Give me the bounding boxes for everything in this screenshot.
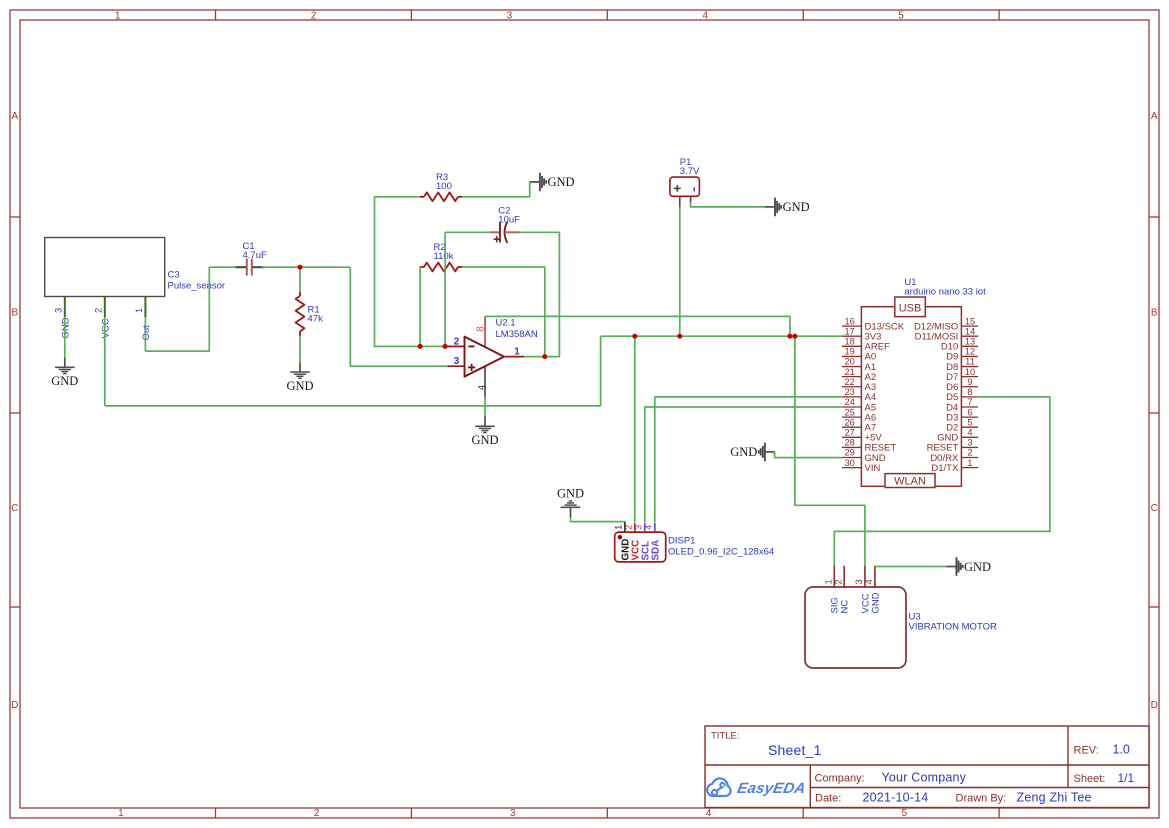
svg-text:3: 3 xyxy=(510,808,516,819)
svg-text:1: 1 xyxy=(967,458,972,468)
svg-text:1.0: 1.0 xyxy=(1113,743,1130,757)
vibration motor U3 body xyxy=(805,587,906,668)
svg-text:2: 2 xyxy=(311,10,317,21)
U1 right pin 2 D0/RX xyxy=(961,457,978,459)
svg-text:GND: GND xyxy=(548,175,575,189)
U1 right pin 5 D2 xyxy=(961,426,978,428)
svg-text:4: 4 xyxy=(476,385,486,390)
svg-text:3: 3 xyxy=(454,356,460,367)
wire VCC bus up to 3V3 net xyxy=(600,336,602,406)
wire D5 to motor SIG xyxy=(834,397,1050,566)
ground for U1 GND pin29 xyxy=(765,451,775,453)
U1 left pin 19 A0 xyxy=(842,355,862,357)
svg-text:2: 2 xyxy=(834,579,844,584)
svg-text:arduino nano 33 iot: arduino nano 33 iot xyxy=(904,287,986,298)
svg-text:Out: Out xyxy=(141,325,152,341)
wire OLED GND xyxy=(571,517,625,522)
wire node to op-amp + xyxy=(350,267,447,366)
op-amp plus mark xyxy=(468,366,475,368)
svg-text:18: 18 xyxy=(845,337,855,347)
svg-text:2: 2 xyxy=(454,336,460,347)
svg-text:3: 3 xyxy=(54,308,64,313)
svg-text:GND: GND xyxy=(783,200,810,214)
svg-text:11: 11 xyxy=(965,357,975,367)
svg-text:8: 8 xyxy=(967,387,972,397)
svg-text:U2.1: U2.1 xyxy=(496,317,516,328)
resistor R1 47k xyxy=(299,292,301,296)
U1 right pin 11 D8 xyxy=(961,366,978,368)
svg-text:A: A xyxy=(1151,111,1158,122)
wire A4 to OLED SDA xyxy=(655,397,842,523)
resistor R2 110k xyxy=(420,266,424,268)
svg-text:B: B xyxy=(1151,308,1158,319)
svg-text:1: 1 xyxy=(118,808,124,819)
svg-text:24: 24 xyxy=(845,397,855,407)
U1 right pin 6 D3 xyxy=(961,416,978,418)
OLED DISP1 body xyxy=(615,532,666,562)
wire battery plus to 3V3 net xyxy=(679,207,681,336)
wire R1 to ground xyxy=(299,336,301,363)
svg-text:7: 7 xyxy=(967,397,972,407)
op-amp U2.1 triangle xyxy=(465,337,505,377)
svg-text:1: 1 xyxy=(614,525,624,530)
svg-text:B: B xyxy=(11,308,18,319)
wire battery minus to ground xyxy=(691,203,765,207)
U1 left pin 25 A6 xyxy=(842,416,862,418)
U1 right pin 10 D7 xyxy=(961,376,978,378)
svg-text:REV:: REV: xyxy=(1074,745,1099,757)
U1 left pin 28 RESET xyxy=(842,446,862,448)
battery minus mark xyxy=(693,187,695,191)
wire 3V3 bus xyxy=(601,335,842,337)
svg-text:4: 4 xyxy=(703,10,709,21)
wire R3 left down to inverting input xyxy=(375,197,448,347)
svg-text:GND: GND xyxy=(471,433,498,447)
svg-text:GND: GND xyxy=(286,379,313,393)
svg-text:Sheet:: Sheet: xyxy=(1074,773,1106,785)
svg-text:OLED_0.96_I2C_128x64: OLED_0.96_I2C_128x64 xyxy=(668,547,774,558)
U1 left pin 21 A2 xyxy=(842,376,862,378)
svg-text:C3: C3 xyxy=(168,270,180,281)
wire C3 Out down xyxy=(144,317,146,351)
op-amp pin 3 stub xyxy=(447,365,464,367)
ground for op-amp pin4 xyxy=(484,417,486,427)
wire R3 right to ground xyxy=(462,182,530,197)
svg-text:A: A xyxy=(11,111,18,122)
wire C1 to node xyxy=(262,266,351,268)
op-amp pin 2 stub xyxy=(447,345,464,347)
svg-text:C: C xyxy=(1151,503,1158,514)
U1 right pin 1 D1/TX xyxy=(961,467,978,469)
svg-text:25: 25 xyxy=(845,407,855,417)
op-amp U2.1 pin 8 supply line xyxy=(484,316,486,350)
svg-text:6: 6 xyxy=(967,407,972,417)
EasyEDA logo xyxy=(707,778,730,796)
svg-text:17: 17 xyxy=(845,326,855,336)
svg-text:Your Company: Your Company xyxy=(882,771,967,785)
U1 left pin 16 D13/SCK xyxy=(842,325,862,327)
wire VCC bus horizontal xyxy=(105,405,601,407)
svg-text:TITLE:: TITLE: xyxy=(711,731,740,742)
svg-text:USB: USB xyxy=(899,302,922,314)
svg-text:2: 2 xyxy=(314,808,320,819)
svg-text:GND: GND xyxy=(557,487,584,501)
U1 left pin 29 GND xyxy=(842,457,862,459)
svg-text:20: 20 xyxy=(845,357,855,367)
U3 pin 2 NC xyxy=(843,566,845,587)
svg-text:3: 3 xyxy=(507,10,513,21)
svg-text:2: 2 xyxy=(967,448,972,458)
C3 pin 2 VCC stub xyxy=(104,297,106,318)
svg-text:4: 4 xyxy=(864,579,874,584)
svg-text:3: 3 xyxy=(633,525,643,530)
svg-text:Company:: Company: xyxy=(815,773,865,785)
svg-text:1: 1 xyxy=(824,579,834,584)
svg-text:5: 5 xyxy=(898,10,904,21)
U1 left pin 17 3V3 xyxy=(842,335,862,337)
svg-text:EasyEDA: EasyEDA xyxy=(736,780,808,797)
title block frame xyxy=(705,726,1149,808)
U1 left pin 27 +5V xyxy=(842,436,862,438)
svg-text:VIBRATION MOTOR: VIBRATION MOTOR xyxy=(909,622,997,633)
svg-text:4: 4 xyxy=(643,525,653,530)
U1 left pin 30 VIN xyxy=(842,467,862,469)
ground for OLED xyxy=(570,507,572,517)
svg-text:LM358AN: LM358AN xyxy=(496,329,538,340)
wire Out to C1 xyxy=(145,267,246,351)
wire R2 right to output node xyxy=(462,267,545,357)
U1 right pin 14 D11/MOSI xyxy=(961,335,978,337)
svg-text:DISP1: DISP1 xyxy=(668,536,695,547)
wire motor GND to ground xyxy=(875,566,946,568)
wire A5 to OLED SCL xyxy=(645,407,842,523)
svg-text:1: 1 xyxy=(115,10,121,21)
battery plus mark xyxy=(674,187,681,189)
op-amp minus mark xyxy=(468,345,474,347)
U3 pin 4 GND xyxy=(874,566,876,587)
wire C3 VCC down xyxy=(104,317,106,406)
svg-text:D1/TX: D1/TX xyxy=(931,463,959,474)
U1 right pin 4 GND xyxy=(961,436,978,438)
U1 left pin 22 A3 xyxy=(842,386,862,388)
svg-text:30: 30 xyxy=(845,458,855,468)
svg-text:27: 27 xyxy=(845,428,855,438)
wire node to R1 xyxy=(299,267,301,292)
wire C3 pin3 to ground xyxy=(64,317,66,358)
svg-text:NC: NC xyxy=(840,600,851,614)
svg-text:C: C xyxy=(11,503,18,514)
svg-text:D: D xyxy=(1151,700,1158,711)
wire 3V3 to motor VCC xyxy=(795,336,865,566)
svg-text:26: 26 xyxy=(845,417,855,427)
svg-text:15: 15 xyxy=(965,316,975,326)
C3 pin 1 Out stub xyxy=(144,297,146,318)
U1 right pin 9 D6 xyxy=(961,386,978,388)
svg-text:100: 100 xyxy=(436,181,452,192)
ground for R3 xyxy=(530,181,540,183)
svg-text:Zeng Zhi Tee: Zeng Zhi Tee xyxy=(1017,791,1092,805)
U1 left pin 20 A1 xyxy=(842,366,862,368)
battery pin 2 stub xyxy=(690,196,692,202)
svg-text:D: D xyxy=(11,700,18,711)
wire C2 right down to output node xyxy=(519,232,559,356)
op-amp pin 1 output stub xyxy=(504,356,524,358)
svg-text:28: 28 xyxy=(845,438,855,448)
OLED pin 1 GND stub xyxy=(624,522,626,533)
svg-text:Drawn By:: Drawn By: xyxy=(956,793,1007,805)
svg-text:Pulse_sensor: Pulse_sensor xyxy=(168,281,226,292)
wire pin29 GND xyxy=(775,452,842,458)
U1 left pin 26 A7 xyxy=(842,426,862,428)
svg-text:VCC: VCC xyxy=(100,318,111,338)
resistor R3 100 feedback xyxy=(420,196,424,198)
svg-text:29: 29 xyxy=(845,448,855,458)
svg-text:1: 1 xyxy=(514,347,520,358)
battery pin 1 stub xyxy=(679,196,681,207)
U1 right pin 7 D4 xyxy=(961,406,978,408)
U1 right pin 12 D9 xyxy=(961,355,978,357)
svg-text:SDA: SDA xyxy=(651,540,662,561)
svg-text:14: 14 xyxy=(965,326,975,336)
U1 right pin 8 D5 xyxy=(961,396,978,398)
U1 right pin 15 D12/MISO xyxy=(961,325,978,327)
ground for motor xyxy=(946,566,956,568)
svg-text:8: 8 xyxy=(475,326,486,332)
svg-text:3: 3 xyxy=(967,438,972,448)
svg-text:5: 5 xyxy=(967,417,972,427)
U1 left pin 24 A5 xyxy=(842,406,862,408)
C3 pin 3 GND stub xyxy=(64,297,66,318)
wire pin4 to ground xyxy=(484,397,486,417)
svg-text:4: 4 xyxy=(706,808,712,819)
pulse sensor module C3 body xyxy=(45,238,165,297)
svg-text:10: 10 xyxy=(965,367,975,377)
svg-text:10uF: 10uF xyxy=(498,214,520,225)
op-amp U2.1 pin 4 line xyxy=(484,363,486,397)
svg-text:16: 16 xyxy=(845,316,855,326)
U1 right pin 3 RESET xyxy=(961,446,978,448)
svg-text:GND: GND xyxy=(51,374,78,388)
U3 pin 1 SIG xyxy=(833,566,835,587)
svg-text:22: 22 xyxy=(845,377,855,387)
ground for battery xyxy=(765,206,775,208)
OLED pin 2 VCC stub xyxy=(634,523,636,532)
svg-text:3.7V: 3.7V xyxy=(680,166,700,177)
svg-text:4.7uF: 4.7uF xyxy=(243,250,267,261)
junction dots layer xyxy=(298,265,303,270)
ground for C3 pin3 xyxy=(64,358,66,368)
svg-text:19: 19 xyxy=(845,347,855,357)
svg-text:2: 2 xyxy=(623,525,633,530)
svg-text:VIN: VIN xyxy=(865,463,881,474)
OLED pin 4 SDA stub xyxy=(654,523,656,532)
svg-text:4: 4 xyxy=(967,428,972,438)
U3 pin 3 VCC xyxy=(864,566,866,587)
svg-text:110k: 110k xyxy=(434,251,454,262)
svg-text:2: 2 xyxy=(94,308,104,313)
svg-text:12: 12 xyxy=(965,347,975,357)
svg-text:GND: GND xyxy=(60,317,71,338)
svg-text:21: 21 xyxy=(845,367,855,377)
svg-text:9: 9 xyxy=(967,377,972,387)
svg-text:1/1: 1/1 xyxy=(1118,771,1135,785)
svg-text:13: 13 xyxy=(965,337,975,347)
svg-text:GND: GND xyxy=(964,560,991,574)
capacitor C1 4.7uF xyxy=(236,266,247,268)
wire 3V3 to OLED VCC xyxy=(634,336,636,522)
wire R2 left down to inverting node xyxy=(419,267,421,346)
ground for R1 xyxy=(299,362,301,372)
svg-text:GND: GND xyxy=(870,592,881,613)
wire C2 left down to inverting node xyxy=(445,231,490,233)
U1 left pin 23 A4 xyxy=(842,396,862,398)
arduino nano U1 body xyxy=(861,307,961,487)
arduino WLAN box xyxy=(885,474,935,488)
svg-text:47k: 47k xyxy=(308,314,324,325)
svg-text:2021-10-14: 2021-10-14 xyxy=(863,791,929,805)
wire output to junction xyxy=(524,356,545,358)
svg-text:5: 5 xyxy=(902,808,908,819)
svg-text:1: 1 xyxy=(134,308,144,313)
svg-text:Sheet_1: Sheet_1 xyxy=(768,742,822,758)
U1 left pin 18 AREF xyxy=(842,345,862,347)
svg-text:23: 23 xyxy=(845,387,855,397)
svg-text:3: 3 xyxy=(854,579,864,584)
svg-text:GND: GND xyxy=(730,445,757,459)
OLED pin 3 SCL stub xyxy=(644,523,646,532)
U1 right pin 13 D10 xyxy=(961,345,978,347)
wire pin8 supply to 3V3 net xyxy=(485,316,790,336)
svg-text:Date:: Date: xyxy=(815,793,841,805)
battery P1 3.7V body xyxy=(670,177,700,196)
arduino USB box xyxy=(895,297,926,317)
capacitor C2 10uF polarized xyxy=(490,231,500,233)
svg-text:WLAN: WLAN xyxy=(894,475,926,487)
